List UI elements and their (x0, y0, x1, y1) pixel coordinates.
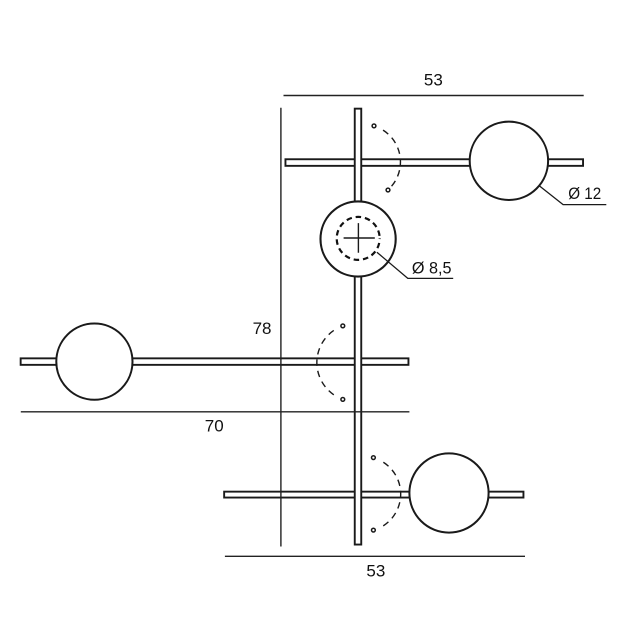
svg-text:Ø 12: Ø 12 (568, 184, 601, 203)
svg-text:53: 53 (424, 70, 443, 89)
svg-text:Ø 8,5: Ø 8,5 (412, 258, 452, 277)
svg-text:70: 70 (205, 416, 224, 435)
svg-text:78: 78 (253, 319, 272, 338)
svg-text:53: 53 (366, 562, 385, 581)
